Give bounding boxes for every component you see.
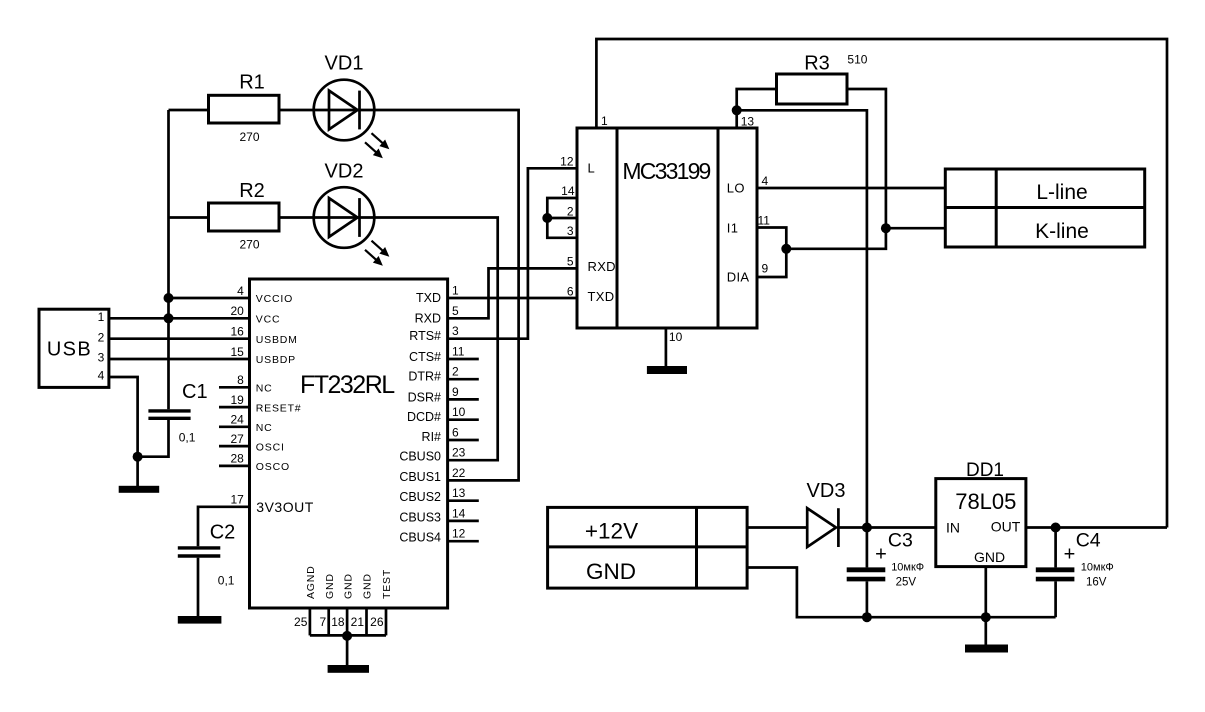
wire: MC I1/DIA tie bracket [757,228,786,278]
wire: VD3 to 78L05 IN [838,526,935,529]
svg-text:CBUS0: CBUS0 [399,450,441,464]
svg-text:+: + [875,544,887,566]
node: junction dot VCCIO [164,293,174,303]
svg-text:3: 3 [98,351,105,365]
svg-text:2: 2 [452,365,459,379]
node: junction dot C3/+12V [862,523,872,533]
resistor R2 (270) [209,180,280,252]
pin numbers bottom row [294,615,384,629]
svg-text:R3: R3 [804,53,830,75]
wire: USB pin2 to FT USBDM [109,337,250,340]
svg-text:RESET#: RESET# [256,402,302,414]
svg-text:DSR#: DSR# [408,390,441,404]
svg-text:DCD#: DCD# [407,410,441,424]
svg-text:C3: C3 [888,530,913,552]
wire: pin13 node right and down to +12V node [737,110,867,527]
svg-text:12: 12 [452,527,466,541]
svg-text:GND: GND [342,573,354,599]
svg-text:4: 4 [762,174,769,188]
svg-text:78L05: 78L05 [955,489,1016,514]
wire: MC pin10 to ground [665,328,668,366]
capacitor C2 (0,1) [178,522,235,588]
svg-text:270: 270 [239,130,259,144]
svg-text:VD1: VD1 [325,53,364,75]
wire: left vertical to R2 [169,216,209,219]
svg-text:RTS#: RTS# [409,329,441,343]
svg-text:L-line: L-line [1036,181,1087,204]
svg-text:RI#: RI# [422,430,442,444]
svg-text:NC: NC [256,422,273,434]
wire: USB pin1 to FT VCC [109,317,250,320]
svg-text:1: 1 [601,114,608,128]
svg-text:10: 10 [669,330,683,344]
svg-text:15: 15 [230,345,244,359]
svg-text:14: 14 [561,184,575,198]
wire: C1 bottom to ground node [138,420,169,457]
svg-text:10мкФ: 10мкФ [891,562,924,574]
capacitor C3 (10uF 25V) [847,528,924,618]
svg-text:OSCI: OSCI [256,441,285,453]
svg-text:6: 6 [567,284,574,298]
svg-text:12: 12 [560,155,574,169]
svg-text:13: 13 [741,115,755,129]
svg-text:5: 5 [452,304,459,318]
wire: MC pin13 up to node [735,110,738,128]
svg-text:4: 4 [98,369,105,383]
capacitor C1 (0,1) [148,381,207,445]
svg-text:R2: R2 [239,180,265,202]
svg-text:24: 24 [230,413,244,427]
svg-text:5: 5 [567,255,574,269]
node: junction dot C4/OUT [1051,523,1061,533]
wire: FT RXD to MC RXD pin5 [448,268,577,318]
svg-text:1: 1 [452,284,459,298]
wire: C2 bottom to ground [197,558,200,616]
wire: 78L05 OUT to right rail [1026,526,1167,529]
wire: 3V3OUT to C2 [198,507,250,546]
svg-text:18: 18 [331,615,345,629]
svg-text:3: 3 [452,324,459,338]
svg-text:I1: I1 [727,220,738,235]
wire: FT bottom ground pins 25 7 18 21 26 [310,608,386,635]
svg-text:IN: IN [946,520,960,536]
node: junction dot C3 gnd [862,612,872,622]
connector L-line / K-line [945,169,1144,247]
svg-text:13: 13 [452,486,466,500]
svg-text:LO: LO [727,180,745,195]
svg-text:CBUS3: CBUS3 [399,510,441,524]
LED VD1 [314,53,388,158]
connector +12V / GND [548,507,748,588]
svg-text:3: 3 [567,224,574,238]
svg-text:11: 11 [758,214,771,228]
svg-text:DIA: DIA [727,269,750,284]
svg-text:GND: GND [974,549,1005,565]
svg-text:28: 28 [230,452,244,466]
wire: left vertical from R1/R2 down to VCC line [167,110,170,318]
wire: VCC line down to C1 [167,318,170,409]
wire: +12V to VD3 [747,526,807,529]
svg-text:L: L [588,161,596,176]
node: junction dot I1/DIA [781,244,791,254]
node: junction dot 78L05 gnd [981,612,991,622]
wire: VCCIO line [169,297,250,300]
svg-text:7: 7 [320,615,327,629]
node: junction dot USB gnd [133,452,143,462]
svg-text:TXD: TXD [588,289,615,304]
svg-text:VD3: VD3 [807,480,846,502]
svg-text:DD1: DD1 [966,460,1004,481]
wire: R1 to VD1 and down to CBUS1 [279,110,519,480]
svg-text:GND: GND [362,573,374,599]
svg-text:16: 16 [230,325,244,339]
svg-text:MC33199: MC33199 [622,158,710,184]
svg-text:25: 25 [294,615,308,629]
svg-text:1: 1 [98,310,105,324]
svg-text:RXD: RXD [588,259,616,274]
resistor R3 (510) [777,52,868,104]
node: junction dot FT ground [342,631,352,641]
wire: FT TXD to MC TXD pin6 [448,297,577,300]
svg-text:23: 23 [452,446,466,460]
node: junction dot MC pin2 [542,213,552,223]
svg-text:21: 21 [351,615,365,629]
svg-text:9: 9 [762,262,769,276]
wire: FT right unconnected stubs [448,359,479,541]
svg-text:11: 11 [452,345,465,359]
svg-text:R1: R1 [239,72,265,94]
svg-text:4: 4 [237,284,244,298]
svg-text:2: 2 [567,204,574,218]
svg-text:510: 510 [847,52,867,66]
LED VD2 [314,161,388,265]
node: junction dot VCC [164,313,174,323]
svg-text:AGND: AGND [305,565,317,599]
resistor R1 (270) [209,72,280,145]
diode VD3 [807,480,846,547]
wire: bracket to K-line node [786,228,886,249]
svg-text:TEST: TEST [381,569,393,599]
svg-text:8: 8 [237,373,244,387]
svg-text:OUT: OUT [991,519,1021,535]
svg-text:GND: GND [586,559,636,584]
svg-text:USBDP: USBDP [256,354,296,366]
wire: left vertical to R1 [169,109,209,112]
node: junction dot pin13 [732,105,742,115]
svg-text:USBDM: USBDM [256,334,298,346]
svg-text:USB: USB [47,339,92,361]
svg-text:0,1: 0,1 [179,431,196,445]
wire: R2 to VD2 and down to CBUS0 [279,218,498,461]
ground: MC pin10 [647,366,687,374]
svg-text:CBUS2: CBUS2 [399,490,441,504]
svg-text:14: 14 [452,506,466,520]
svg-text:+: + [1064,544,1076,566]
svg-text:17: 17 [230,493,244,507]
wire: USB pin3 to FT USBDP [109,358,250,361]
svg-text:RXD: RXD [415,311,441,325]
wire: MC pin1 to +5V top rail [596,39,1167,528]
wire: MC pins 14,2,3 tie bracket [547,198,577,238]
capacitor C4 (10uF 16V) [1036,528,1114,618]
svg-text:CBUS4: CBUS4 [399,531,441,545]
svg-text:20: 20 [230,304,244,318]
svg-text:2: 2 [98,330,105,344]
svg-text:DTR#: DTR# [408,370,441,384]
svg-text:26: 26 [370,615,384,629]
wire: FT left NC stubs [219,387,250,466]
svg-text:CTS#: CTS# [409,350,441,364]
svg-text:27: 27 [230,432,244,446]
svg-text:22: 22 [452,466,466,480]
wire: FT RTS# to MC L pin12 [448,168,577,338]
svg-text:+12V: +12V [585,518,638,543]
wire: R3 right down to K-line node [847,89,886,228]
wire: pin13 node to R3 left [737,89,777,110]
wire: 78L05 GND pin down [984,567,987,645]
svg-text:VCCIO: VCCIO [256,293,293,305]
node: junction dot K-line [881,223,891,233]
svg-text:10мкФ: 10мкФ [1081,562,1114,574]
IC U1 FT232RL [230,279,465,608]
svg-text:GND: GND [324,573,336,599]
wire: K-line node to connector [886,227,945,230]
svg-text:C2: C2 [210,522,236,544]
connector USB [39,309,109,387]
svg-text:19: 19 [230,393,244,407]
svg-text:10: 10 [452,405,466,419]
ground: USB/C1 [119,457,160,493]
svg-text:25V: 25V [896,576,917,588]
IC DD1 78L05 [936,460,1026,567]
wire: MC LO pin4 to L-line [757,187,945,190]
svg-text:FT232RL: FT232RL [300,371,395,399]
svg-text:16V: 16V [1086,576,1107,588]
svg-text:K-line: K-line [1035,220,1089,243]
svg-text:9: 9 [452,385,459,399]
svg-text:OSCO: OSCO [256,461,290,473]
ground: C2 [178,616,222,624]
svg-text:0,1: 0,1 [218,574,235,588]
ground: 78L05 [965,645,1008,653]
svg-text:VCC: VCC [256,314,281,326]
svg-text:TXD: TXD [416,291,441,305]
svg-text:C4: C4 [1076,530,1101,552]
wire: GND from connector along bottom bus [747,568,1056,618]
svg-text:270: 270 [239,238,259,252]
svg-text:3V3OUT: 3V3OUT [256,499,313,515]
svg-text:VD2: VD2 [325,161,364,183]
ground: FT232RL [328,635,369,672]
svg-text:CBUS1: CBUS1 [399,470,441,484]
svg-text:6: 6 [452,426,459,440]
IC U2 MC33199 [560,114,770,344]
svg-text:NC: NC [256,383,273,395]
wire: USB pin4 to ground node [109,377,138,457]
svg-text:C1: C1 [182,381,208,403]
